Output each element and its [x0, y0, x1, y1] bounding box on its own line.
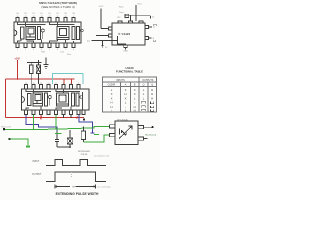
U2 internal monostable block 1 — [28, 93, 52, 106]
node terminal dot 2 — [8, 138, 10, 140]
U1 bottom pin stubs — [16, 43, 75, 48]
svg-text:8: 8 — [73, 49, 74, 51]
svg-text:LS123: LS123 — [126, 66, 134, 70]
U3 right pin stubs — [145, 26, 149, 40]
svg-text:10: 10 — [70, 83, 72, 85]
title text — [39, 1, 77, 9]
svg-text:15: 15 — [33, 83, 35, 85]
U1 internal monostable block 1 — [21, 27, 45, 40]
wire bottom joining rail — [57, 146, 70, 148]
table pulse glyphs Q column — [142, 101, 154, 111]
wire Cext pin drop — [130, 16, 132, 21]
ground — [44, 58, 49, 69]
dimension tw arrow — [55, 185, 96, 189]
app circuit VCC wire left — [100, 9, 102, 29]
IC U2 package outline — [22, 89, 90, 110]
capacitor C1 — [55, 131, 59, 147]
table title — [116, 66, 143, 73]
wire probe drop — [101, 41, 103, 48]
svg-text:VCC: VCC — [137, 4, 142, 6]
svg-text:5: 5 — [49, 49, 50, 51]
wire VCC vertical to U3 — [135, 5, 137, 21]
svg-text:GND: GND — [123, 51, 128, 53]
wire module output 2 — [144, 138, 148, 140]
U1 bottom pin numbers — [17, 49, 74, 51]
wire 2Q output run — [92, 36, 126, 46]
svg-text:Rext: Rext — [119, 6, 124, 9]
svg-text:3: 3 — [33, 49, 34, 51]
wire blue from U2 pin right branch — [79, 115, 95, 133]
svg-text:10: 10 — [64, 16, 66, 18]
svg-text:Q: Q — [151, 85, 153, 87]
svg-text:Rext: Rext — [67, 53, 71, 56]
module M1 internal symbol — [119, 126, 132, 139]
svg-text:14: 14 — [40, 83, 42, 85]
U2 top pin numbers — [25, 83, 79, 85]
resistor R1 — [30, 65, 34, 74]
wire Rext/Cext horizontal — [126, 15, 151, 17]
U3 top pin stubs — [118, 21, 143, 23]
svg-text:FUNCTIONAL TABLE: FUNCTIONAL TABLE — [116, 69, 143, 73]
wire black pin drops to red rail — [64, 115, 72, 118]
table header text — [108, 80, 154, 87]
svg-text:RC: RC — [118, 17, 122, 19]
svg-text:+5V: +5V — [14, 56, 21, 60]
wire cyan jumper — [53, 74, 84, 85]
node retrigger label — [78, 151, 90, 156]
wire green stub with hook — [10, 139, 31, 147]
svg-text:1: 1 — [17, 49, 18, 51]
svg-text:INPUTS: INPUTS — [116, 80, 125, 82]
svg-text:7: 7 — [65, 49, 66, 51]
svg-text:Wemos D1: Wemos D1 — [1, 126, 12, 128]
wire output Q — [149, 26, 153, 28]
svg-text:GND: GND — [41, 52, 46, 54]
component X1 crossed box — [67, 130, 72, 147]
svg-text:H: H — [134, 108, 136, 112]
svg-text:H: H — [151, 96, 153, 100]
svg-text:9: 9 — [78, 83, 79, 85]
svg-text:13: 13 — [48, 83, 50, 85]
U1 top pin stubs — [16, 18, 75, 23]
svg-text:Q: Q — [143, 85, 145, 87]
svg-text:2Q: 2Q — [87, 40, 90, 42]
IC U1 package outline (DIP-16 top view) — [14, 22, 81, 43]
svg-text:OUTPUTS: OUTPUTS — [142, 80, 153, 82]
wire input A — [101, 28, 109, 30]
module M1 left pin 2 — [110, 134, 116, 137]
svg-text:½ 'LS123: ½ 'LS123 — [118, 32, 130, 36]
paper background — [0, 0, 160, 200]
svg-text:16: 16 — [16, 16, 18, 18]
wire red +5V vertical — [16, 60, 18, 79]
svg-text:(see switching): (see switching) — [97, 185, 111, 188]
wire input B — [96, 35, 109, 37]
app circuit component value labels — [118, 6, 124, 20]
svg-text:11: 11 — [57, 16, 59, 18]
wire red +5V rail upper — [6, 78, 75, 80]
svg-text:CLEAR: CLEAR — [108, 84, 116, 87]
wire red drop to U2 pin 5 — [63, 79, 65, 84]
wire R1 leads — [30, 63, 32, 85]
module M1 box — [115, 121, 138, 144]
svg-text:Waveboard: Waveboard — [145, 133, 157, 136]
U1 bottom pin labels GND Cext Rext/Cext — [41, 51, 72, 56]
module M1 right pin 1 — [138, 126, 144, 129]
U2 index notch — [22, 97, 25, 103]
node terminal dot 1 — [3, 128, 5, 130]
wire green long rail — [4, 126, 109, 129]
functional table grid — [103, 77, 157, 112]
svg-text:Cext: Cext — [60, 51, 64, 54]
U3 left pin stubs — [109, 27, 113, 37]
svg-text:OUTPUT: OUTPUT — [32, 174, 42, 176]
node junction on 2Q run — [102, 40, 104, 42]
svg-text:(OneUpdate Out): (OneUpdate Out) — [94, 155, 110, 158]
wire module output — [144, 126, 153, 128]
wire GND drop from U3 — [125, 48, 127, 50]
table data rows — [110, 88, 153, 112]
resistor R3 vertical — [81, 127, 85, 142]
U1 internal monostable block 2 — [57, 27, 83, 40]
waveform A input trace — [46, 160, 106, 166]
wire output Qbar — [149, 37, 152, 39]
svg-text:(SEE NOTES 1 THRU 4): (SEE NOTES 1 THRU 4) — [41, 5, 74, 9]
U2 internal wires — [26, 89, 83, 110]
svg-text:13: 13 — [40, 16, 42, 18]
waveform Q output trace — [46, 172, 106, 182]
wire green drops from U2 pins — [34, 115, 57, 129]
svg-text:12: 12 — [48, 16, 50, 18]
wire red bottom rail — [6, 117, 85, 119]
wire D1 leads — [37, 60, 39, 84]
svg-text:Cext: Cext — [119, 11, 124, 14]
svg-text:2: 2 — [25, 49, 26, 51]
wire blue from U2 pin to cap — [26, 115, 57, 132]
svg-text:PULSE: PULSE — [81, 154, 88, 156]
svg-text:EXTENDING PULSE WIDTH: EXTENDING PULSE WIDTH — [56, 192, 99, 196]
module M1 left pin 1 — [110, 125, 116, 128]
svg-text:9: 9 — [73, 16, 74, 18]
svg-text:INPUT: INPUT — [33, 161, 40, 163]
wire green to module lower pin — [83, 135, 109, 142]
svg-text:VCC: VCC — [99, 6, 104, 8]
node junctions on RC line — [130, 15, 132, 17]
svg-text:14: 14 — [32, 16, 34, 18]
svg-text:12: 12 — [55, 83, 57, 85]
svg-text:6: 6 — [57, 49, 58, 51]
U3 bottom pin stub — [124, 45, 128, 48]
module M1 right pin 2 — [138, 137, 144, 140]
diode D1 (LED) — [36, 65, 40, 74]
U1 internal wires — [18, 22, 75, 43]
svg-text:tw: tw — [73, 186, 76, 189]
op-amp U3 half LS123 box — [112, 23, 145, 45]
svg-text:11: 11 — [63, 83, 65, 85]
wire pull-up network top rail — [27, 62, 42, 64]
wire red left vertical — [5, 79, 7, 118]
svg-text:16: 16 — [25, 83, 27, 85]
wire right end drop with label — [150, 16, 152, 19]
U2 top pin stubs — [25, 85, 81, 90]
wire green remnant — [55, 134, 99, 135]
node red junction dots — [16, 78, 18, 80]
wire red pin drop to bottom rail — [40, 115, 42, 120]
U2 bottom pin stubs — [25, 110, 86, 115]
node D1 top junction — [38, 62, 40, 64]
U2 internal monostable block 2 — [57, 93, 83, 106]
U1 index notch — [14, 30, 17, 36]
waveform dashed untriggered edge — [71, 172, 73, 177]
U1 top pin labels — [16, 12, 75, 18]
wire red drop to U2 pin 6 — [71, 79, 73, 84]
svg-text:RETRIGGER: RETRIGGER — [78, 151, 90, 153]
resistor Rext — [125, 14, 129, 17]
svg-text:15: 15 — [24, 16, 26, 18]
